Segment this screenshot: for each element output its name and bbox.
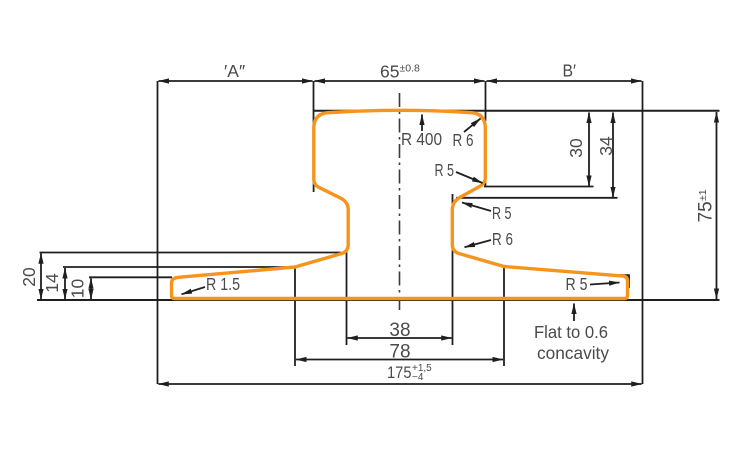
svg-text:R 6: R 6 [492,229,513,249]
dimension 10 vertical [90,278,92,299]
leader arrow flat concavity (up) [573,304,575,322]
svg-text:′A″: ′A″ [224,61,245,81]
svg-text:R 400: R 400 [401,129,442,149]
dimension 78 line [296,359,503,361]
dimension A' line [159,80,313,82]
rail profile (orange) [172,110,628,298]
svg-text:R 6: R 6 [453,130,474,150]
svg-text:175: 175 [387,364,412,382]
leader arrow R400 (up) [421,115,423,132]
corner mark neck right (black under orange) [452,194,454,204]
extension line 38 left [346,249,348,345]
dimension 75 vertical line [716,112,718,299]
svg-text:R 1.5: R 1.5 [206,274,240,294]
svg-text:−4: −4 [412,372,424,383]
leader arrow R5 web top [462,203,491,212]
extension line 10 [89,276,172,278]
extension line 20 [40,252,342,254]
svg-text:R 5: R 5 [435,160,455,180]
dimension 14 vertical [64,268,66,299]
svg-text:75: 75 [696,201,717,222]
svg-text:20: 20 [19,267,39,287]
dimension 34 vertical [612,113,614,198]
dimension 65 line [315,80,485,82]
svg-text:Flat to 0.6: Flat to 0.6 [534,322,608,342]
extension line head-right [485,81,487,121]
svg-text:14: 14 [42,273,62,293]
corner mark head-bottom-right (black under orange) [484,176,486,187]
centerline dash-dot [399,93,401,310]
svg-text:65: 65 [380,61,399,81]
svg-text:concavity: concavity [537,343,609,363]
svg-text:30: 30 [566,138,586,158]
extension line 30 [484,186,594,188]
label 75 +-1 (rotated) [696,189,717,222]
frame right vertical [642,81,644,384]
svg-text:78: 78 [389,342,410,363]
leader arrow R6 head corner [464,119,481,133]
leader arrow R6 web bottom [465,240,492,247]
leader arrow R1.5 foot tip [182,287,206,294]
dimension 20 vertical [40,253,42,299]
rail bottom datum line [37,299,720,301]
svg-text:R 5: R 5 [566,274,588,294]
extension line 78 left [294,267,296,366]
extension line 38 right [452,250,454,345]
svg-text:B′: B′ [563,61,577,81]
dimension 30 vertical [588,113,590,187]
dimension 38 line [347,337,451,339]
svg-text:38: 38 [389,320,410,341]
dimension B' line [487,80,642,82]
extension line 34 [456,197,618,199]
extension line head-left [313,81,315,127]
svg-text:10: 10 [68,279,88,299]
head top datum line [313,110,720,112]
svg-text:34: 34 [596,136,616,156]
svg-text:±0.8: ±0.8 [400,63,421,75]
corner mark foot right (black under orange) [617,275,629,288]
svg-text:±1: ±1 [697,189,709,201]
dimension 175 line [158,383,641,385]
corner mark head-bottom-left (black under orange) [313,180,315,192]
extension line 78 right [503,267,505,367]
leader arrow R5 foot right [590,283,620,285]
leader arrow R5 under-head [456,172,483,183]
frame left vertical [157,81,159,384]
svg-text:R 5: R 5 [492,203,512,223]
extension line 14 [63,266,295,268]
